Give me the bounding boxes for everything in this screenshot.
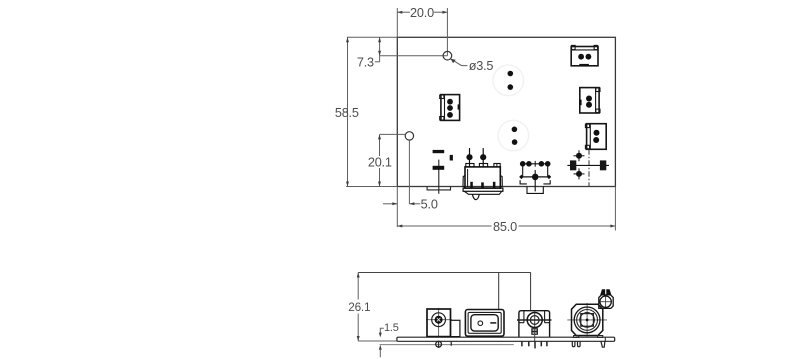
extension line right edge (85.0) — [614, 187, 616, 231]
extension line hole1 horizontal (7.3) — [380, 55, 448, 57]
jack side tab — [451, 320, 460, 336]
extension line left edge above board (20.0) — [396, 8, 398, 37]
svg-text:5.0: 5.0 — [421, 198, 438, 212]
connector J3 right-lower — [585, 124, 606, 150]
extension line hole2 horizontal (20.1) — [380, 133, 406, 135]
dimension line 26.1 — [357, 273, 359, 300]
dimension line 58.5 — [347, 37, 349, 186]
dimension line 20.0 — [397, 11, 410, 13]
component U1 right-bottom — [567, 150, 609, 179]
antenna mast left line — [498, 273, 500, 310]
svg-text:85.0: 85.0 — [493, 220, 517, 234]
dimension line 7.3 — [379, 37, 381, 62]
svg-text:58.5: 58.5 — [335, 106, 359, 120]
connector J2 right-middle — [580, 88, 600, 113]
audio jack side view — [438, 308, 440, 337]
J4 pads — [447, 99, 453, 105]
pad halo circle top — [493, 65, 524, 96]
tuner feet — [574, 336, 579, 338]
svg-text:20.0: 20.0 — [410, 6, 434, 20]
leader diameter 3.5 — [451, 59, 468, 66]
J1 pads — [578, 54, 584, 60]
antenna mast right line — [530, 273, 532, 311]
extension line top-left (58.5) — [347, 36, 397, 38]
centerline from J3 — [588, 149, 590, 186]
extension line hole2 vertical (5.0) — [408, 140, 410, 204]
extension line board bottom left — [358, 340, 397, 342]
extension line top (26.1) — [358, 272, 530, 274]
jack nut below board — [438, 341, 440, 348]
capacitor C1 — [438, 160, 440, 194]
tuner pins below — [572, 341, 575, 346]
pin below jack — [450, 341, 452, 346]
dimension line 85.0 — [397, 225, 491, 227]
tuner lead through slab — [604, 337, 606, 341]
J1 bottom mark — [579, 64, 589, 67]
transformer T1 — [463, 148, 503, 200]
resistor R2 — [450, 155, 453, 161]
pin tip reference line — [380, 344, 514, 346]
rca jack side view — [519, 311, 550, 337]
dimension line 5.0 — [383, 203, 397, 205]
connector J4 left-middle — [440, 95, 460, 121]
J2 pads — [586, 96, 592, 102]
J4 right mark — [458, 104, 460, 109]
pad P4 — [512, 139, 518, 145]
dimension 1.5 leader — [380, 328, 384, 333]
sma connector on tuner — [599, 295, 613, 309]
extension line bottom-left (58.5/20.1) — [346, 186, 397, 188]
J3 pads — [594, 130, 600, 136]
switch S1 footprint — [519, 161, 551, 194]
board outline — [397, 37, 615, 186]
hole H1 3.5mm — [443, 51, 452, 60]
pcb slab side view — [397, 337, 615, 341]
sma screw head — [600, 289, 605, 295]
pad P1 — [508, 71, 514, 77]
pad P2 — [508, 84, 514, 90]
rocker switch side view — [465, 310, 504, 337]
svg-text:20.1: 20.1 — [368, 156, 392, 170]
J2 left mark — [579, 100, 581, 106]
tuner side view — [586, 303, 588, 337]
svg-text:ø3.5: ø3.5 — [469, 59, 494, 73]
pins below rca — [521, 341, 523, 346]
svg-text:1.5: 1.5 — [384, 322, 399, 334]
dimension line 20.1 — [379, 134, 381, 156]
svg-text:26.1: 26.1 — [348, 300, 370, 314]
pad halo circle bottom — [498, 120, 529, 151]
hole H2 3.5mm — [405, 132, 413, 140]
pad P3 — [512, 127, 518, 133]
extension line left edge below board — [396, 187, 398, 228]
connector J1 top-right — [571, 45, 598, 65]
resistor R1 — [433, 150, 445, 153]
edge notch left — [427, 187, 450, 190]
svg-text:7.3: 7.3 — [357, 55, 374, 69]
extension line hole1 vertical (20.0) — [446, 8, 448, 56]
